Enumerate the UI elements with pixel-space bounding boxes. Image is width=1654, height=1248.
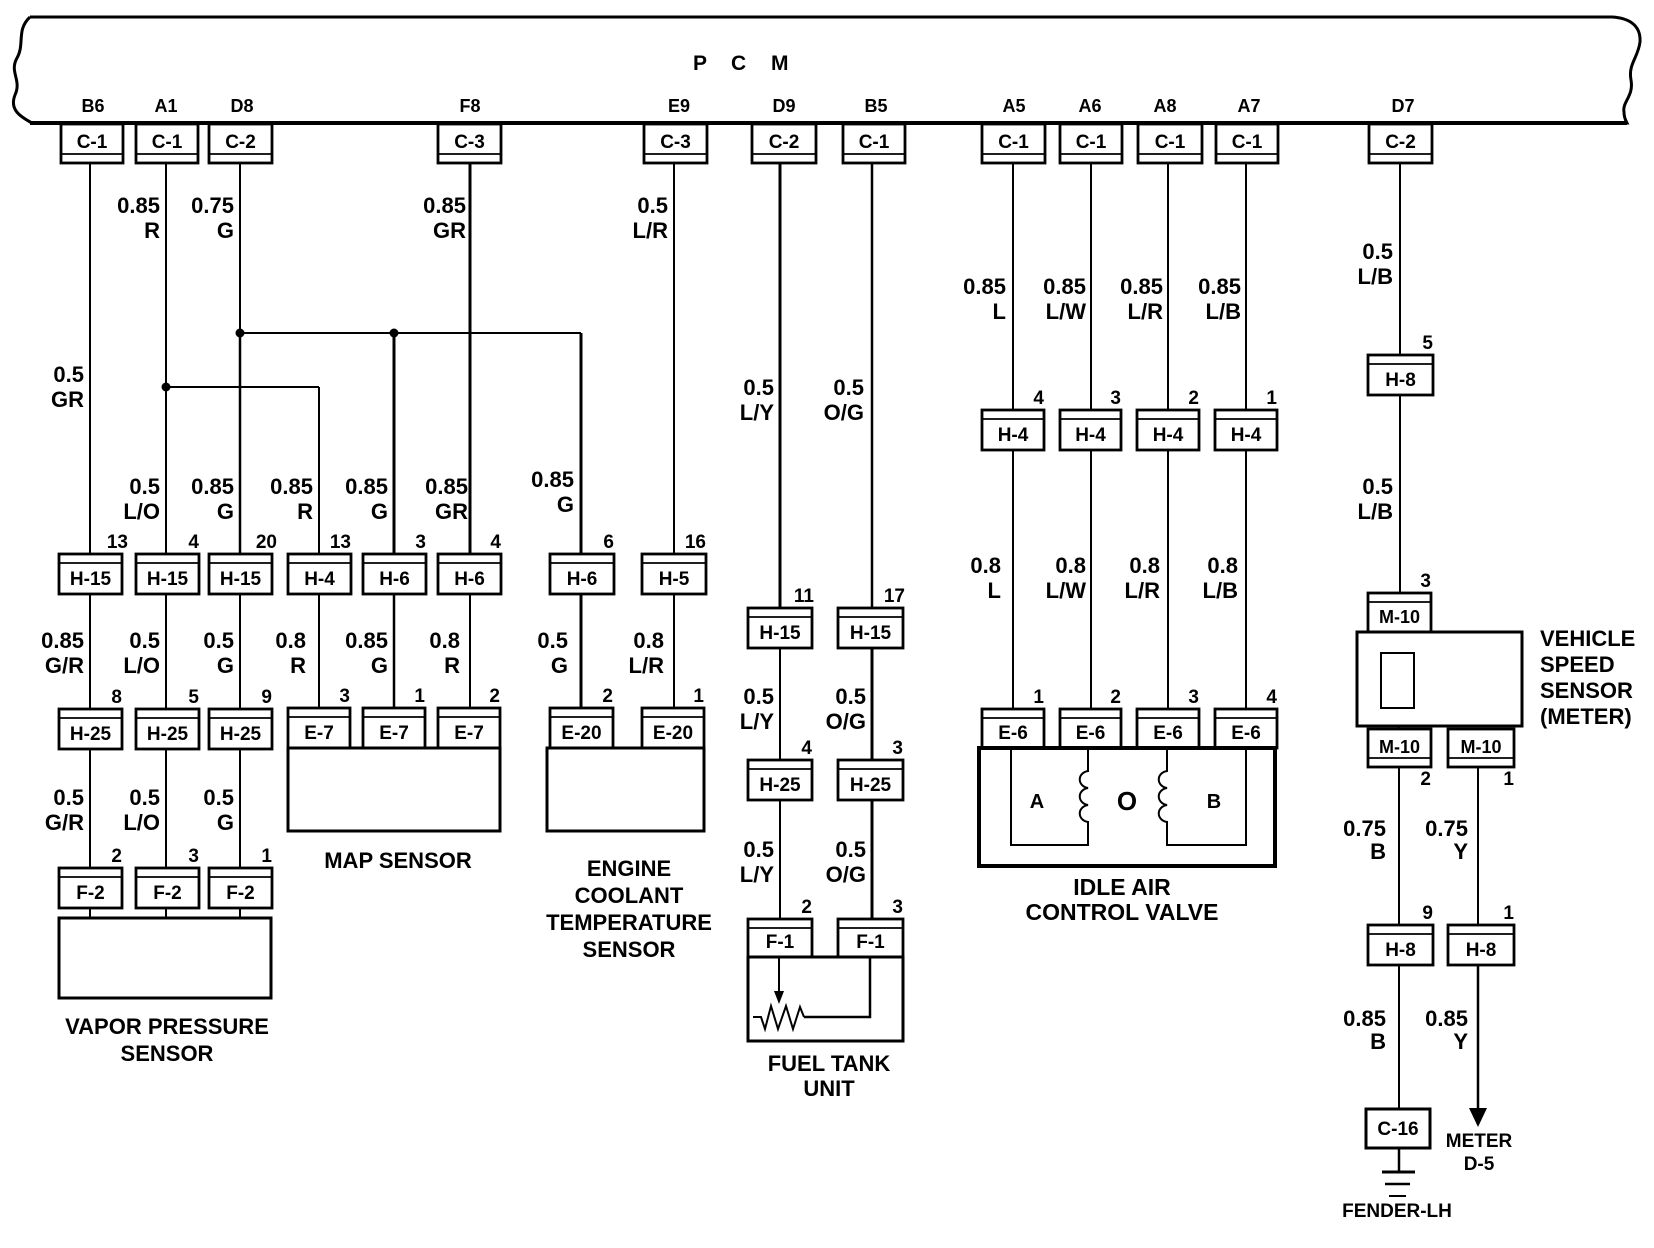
label 0.75 G (D8) xyxy=(191,193,234,243)
connector F-2 pin 2 xyxy=(59,846,122,908)
wire H-4/3 to E-6/2 xyxy=(1090,448,1092,711)
connector E-7 pin 3 xyxy=(288,686,350,748)
svg-text:17: 17 xyxy=(884,586,905,607)
label 0.5 G/R (F-2/2) xyxy=(45,785,84,835)
svg-text:L/R: L/R xyxy=(629,653,665,678)
wire A6 to H-4/3 xyxy=(1090,163,1092,412)
svg-text:11: 11 xyxy=(794,586,815,607)
svg-text:0.85: 0.85 xyxy=(423,193,466,218)
svg-text:0.5: 0.5 xyxy=(129,474,160,499)
IACV winding A wire xyxy=(1011,748,1084,845)
svg-text:4: 4 xyxy=(490,532,501,553)
svg-text:A6: A6 xyxy=(1078,96,1101,116)
svg-text:H-15: H-15 xyxy=(759,623,801,644)
svg-text:0.85: 0.85 xyxy=(345,474,388,499)
svg-text:L/W: L/W xyxy=(1046,299,1087,324)
svg-text:SENSOR: SENSOR xyxy=(583,937,676,962)
label 0.85 G/R (B6) xyxy=(41,628,84,678)
svg-text:0.85: 0.85 xyxy=(345,628,388,653)
wire resistor to F-1 pin 3 xyxy=(804,957,870,1017)
wire H-6/3 to E-7/1 xyxy=(393,592,396,710)
svg-text:9: 9 xyxy=(261,687,272,708)
connector H-25 pin 5 xyxy=(136,687,199,749)
svg-text:F-1: F-1 xyxy=(766,932,795,953)
connector H-4 pin 1 xyxy=(1215,388,1277,450)
svg-text:TEMPERATURE: TEMPERATURE xyxy=(546,910,712,935)
svg-text:(METER): (METER) xyxy=(1540,704,1632,729)
label 0.85 GR (H-6/4) xyxy=(425,474,468,524)
svg-text:O: O xyxy=(1117,786,1137,816)
svg-text:FENDER-LH: FENDER-LH xyxy=(1342,1201,1452,1222)
svg-text:H-4: H-4 xyxy=(1153,425,1184,446)
svg-text:8: 8 xyxy=(111,687,122,708)
connector H-6 pin 6 xyxy=(550,532,614,594)
svg-text:0.8: 0.8 xyxy=(1207,553,1238,578)
connector C-1 (A6) xyxy=(1060,124,1122,163)
connector C-1 (B5) xyxy=(843,124,905,163)
connector H-4 pin 4 xyxy=(982,388,1044,450)
svg-text:L/O: L/O xyxy=(123,499,160,524)
svg-text:2: 2 xyxy=(801,897,812,918)
label 0.5 O/G (B5) xyxy=(824,375,864,425)
connector C-1 (A1) xyxy=(136,124,198,163)
svg-text:0.8: 0.8 xyxy=(429,628,460,653)
svg-text:G/R: G/R xyxy=(45,653,84,678)
svg-text:A5: A5 xyxy=(1002,96,1025,116)
label 0.8 R (H-4/13) xyxy=(275,628,306,678)
svg-text:A1: A1 xyxy=(154,96,177,116)
label 0.5 O/G (H-25/3) xyxy=(826,684,866,734)
svg-text:13: 13 xyxy=(330,532,351,553)
svg-text:5: 5 xyxy=(1422,333,1433,354)
svg-text:1: 1 xyxy=(1266,388,1277,409)
label 0.5 G (F-2/1) xyxy=(203,785,234,835)
label 0.8 L/B (E-6/4) xyxy=(1203,553,1238,603)
wire C-16 to ground xyxy=(1398,1146,1401,1172)
svg-text:C-1: C-1 xyxy=(859,132,890,153)
svg-text:0.75: 0.75 xyxy=(191,193,234,218)
svg-text:E-20: E-20 xyxy=(653,723,693,744)
connector H-4 pin 2 xyxy=(1137,388,1199,450)
svg-text:16: 16 xyxy=(685,532,706,553)
label 0.85 G (D8) xyxy=(191,474,234,524)
svg-text:H-25: H-25 xyxy=(220,724,262,745)
svg-text:M-10: M-10 xyxy=(1460,737,1501,757)
label 0.5 L/Y (F-1/2) xyxy=(740,837,775,887)
svg-text:3: 3 xyxy=(892,738,903,759)
label 0.5 L/O (F-2/3) xyxy=(123,785,160,835)
svg-text:A7: A7 xyxy=(1237,96,1260,116)
label 0.75 B (M-10/2) xyxy=(1343,816,1386,864)
svg-text:0.75: 0.75 xyxy=(1343,816,1386,841)
svg-text:1: 1 xyxy=(1503,769,1514,790)
label 0.5 L/B (M-10/3) xyxy=(1358,474,1393,524)
svg-text:H-4: H-4 xyxy=(998,425,1029,446)
svg-text:0.8: 0.8 xyxy=(970,553,1001,578)
svg-text:9: 9 xyxy=(1422,903,1433,924)
svg-text:0.85: 0.85 xyxy=(1120,274,1163,299)
svg-text:M-10: M-10 xyxy=(1379,737,1420,757)
svg-text:4: 4 xyxy=(188,532,199,553)
svg-text:FUEL TANK: FUEL TANK xyxy=(768,1051,891,1076)
connector E-20 pin 2 xyxy=(550,686,613,748)
fuel tank sender arrow xyxy=(774,957,784,1004)
svg-text:1: 1 xyxy=(414,686,425,707)
svg-text:C-1: C-1 xyxy=(1155,132,1186,153)
MAP sensor label xyxy=(324,848,472,873)
svg-text:H-4: H-4 xyxy=(1231,425,1262,446)
label 0.85 B (C-16) xyxy=(1343,1006,1386,1054)
svg-text:0.5: 0.5 xyxy=(53,362,84,387)
label 0.5 G (H-15/20) xyxy=(203,628,234,678)
PCM module band xyxy=(13,17,1640,123)
connector M-10 pin 1 xyxy=(1448,729,1514,790)
svg-text:H-15: H-15 xyxy=(850,623,892,644)
svg-text:H-8: H-8 xyxy=(1385,370,1416,391)
svg-text:O/G: O/G xyxy=(824,400,864,425)
svg-text:L: L xyxy=(988,578,1001,603)
svg-text:H-15: H-15 xyxy=(220,569,262,590)
svg-text:E-6: E-6 xyxy=(1231,723,1261,744)
svg-text:F-1: F-1 xyxy=(856,932,885,953)
svg-text:R: R xyxy=(290,653,306,678)
svg-text:0.8: 0.8 xyxy=(1055,553,1086,578)
label 0.5 G (E-20/2) xyxy=(537,628,568,678)
wire junction to H-15/4 xyxy=(165,387,167,556)
svg-text:2: 2 xyxy=(489,686,500,707)
svg-text:C-1: C-1 xyxy=(77,132,108,153)
fuel tank unit body xyxy=(748,957,903,1041)
wire H-8/5 to M-10/3 xyxy=(1399,393,1401,595)
label 0.85 L/W (A6) xyxy=(1043,274,1086,324)
svg-text:H-25: H-25 xyxy=(759,775,801,796)
svg-text:0.85: 0.85 xyxy=(425,474,468,499)
connector H-5 pin 16 xyxy=(642,532,706,594)
svg-text:4: 4 xyxy=(1266,687,1277,708)
svg-text:E-7: E-7 xyxy=(454,723,484,744)
wire B6 to H-15 xyxy=(89,163,91,556)
connector C-1 (B6) xyxy=(61,124,123,163)
svg-text:0.5: 0.5 xyxy=(743,375,774,400)
label 0.8 L/R (E-6/3) xyxy=(1125,553,1161,603)
svg-text:B: B xyxy=(1207,791,1221,813)
connector C-1 (A7) xyxy=(1216,124,1278,163)
svg-text:P: P xyxy=(693,52,707,75)
svg-text:0.5: 0.5 xyxy=(129,628,160,653)
label 0.85 L (A5) xyxy=(963,274,1006,324)
wire H-4/2 to E-6/3 xyxy=(1167,448,1169,711)
svg-text:C-2: C-2 xyxy=(225,132,256,153)
connector C-3 (E9) xyxy=(644,124,707,163)
svg-text:H-8: H-8 xyxy=(1466,940,1497,961)
engine coolant temperature sensor body xyxy=(547,748,704,831)
vehicle speed sensor element xyxy=(1381,653,1414,708)
wire F8 to H-6/4 xyxy=(469,163,472,556)
ground FENDER-LH xyxy=(1382,1172,1415,1196)
vapor pressure sensor label xyxy=(65,1014,269,1066)
connector F-1 pin 2 xyxy=(748,897,812,957)
svg-text:3: 3 xyxy=(188,846,199,867)
svg-text:H-6: H-6 xyxy=(454,569,485,590)
wire M-10/3 into VSS xyxy=(1398,630,1400,655)
wire F-2/1 stub xyxy=(239,906,241,918)
svg-text:E-6: E-6 xyxy=(998,723,1028,744)
junction node A1 branch xyxy=(162,383,171,392)
svg-text:M: M xyxy=(771,52,789,75)
svg-text:C-1: C-1 xyxy=(1232,132,1263,153)
label 0.5 L/B (D7) xyxy=(1358,239,1393,289)
connector H-6 pin 4 xyxy=(438,532,501,594)
wire E9 to H-5/16 xyxy=(673,163,675,556)
connector H-8 pin 9 xyxy=(1368,903,1433,965)
connector C-3 (F8) xyxy=(438,124,501,163)
svg-text:H-15: H-15 xyxy=(70,569,112,590)
connector H-25 pin 3 xyxy=(838,738,903,800)
connector F-2 pin 3 xyxy=(136,846,199,908)
svg-text:0.5: 0.5 xyxy=(537,628,568,653)
svg-text:R: R xyxy=(144,218,160,243)
wire H-6/4 to E-7/2 xyxy=(469,592,471,710)
svg-text:H-6: H-6 xyxy=(567,569,598,590)
connector F-2 pin 1 xyxy=(209,846,272,908)
connector F-1 pin 3 xyxy=(838,897,903,957)
connector E-7 pin 1 xyxy=(363,686,425,748)
svg-text:A8: A8 xyxy=(1153,96,1176,116)
meter label xyxy=(1446,1131,1513,1175)
wire junction to H-15/20 xyxy=(239,333,242,556)
svg-text:H-6: H-6 xyxy=(379,569,410,590)
wire H-25/9 to F-2/1 xyxy=(239,747,241,870)
wire H-4/4 to E-6/1 xyxy=(1012,448,1014,711)
svg-text:E-7: E-7 xyxy=(379,723,409,744)
svg-text:MAP SENSOR: MAP SENSOR xyxy=(324,848,472,873)
svg-text:2: 2 xyxy=(1188,388,1199,409)
connector H-25 pin 4 xyxy=(748,738,812,800)
svg-text:C: C xyxy=(731,52,746,75)
label 0.85 G (E-7/1) xyxy=(345,628,388,678)
svg-text:H-5: H-5 xyxy=(659,569,690,590)
svg-text:0.5: 0.5 xyxy=(53,785,84,810)
svg-text:0.8: 0.8 xyxy=(275,628,306,653)
label 0.5 L/R (E9) xyxy=(633,193,669,243)
svg-text:H-8: H-8 xyxy=(1385,940,1416,961)
svg-text:0.5: 0.5 xyxy=(129,785,160,810)
label 0.85 L/B (A7) xyxy=(1198,274,1241,324)
svg-text:0.5: 0.5 xyxy=(835,684,866,709)
idle air control valve label xyxy=(1026,874,1219,925)
wire A1 to junction xyxy=(165,163,167,387)
svg-text:3: 3 xyxy=(1110,388,1121,409)
wire A5 to H-4/4 xyxy=(1012,163,1014,412)
label 0.5 L/Y (D9) xyxy=(740,375,775,425)
label 0.8 R (E-7/2) xyxy=(429,628,460,678)
svg-text:H-25: H-25 xyxy=(850,775,892,796)
svg-text:0.5: 0.5 xyxy=(743,684,774,709)
connector H-15 pin 20 xyxy=(209,532,277,594)
svg-text:L/B: L/B xyxy=(1203,578,1238,603)
svg-text:E-7: E-7 xyxy=(304,723,334,744)
svg-text:2: 2 xyxy=(111,846,122,867)
vehicle speed sensor label xyxy=(1540,626,1635,729)
label 0.5 L/O (A1) xyxy=(123,474,160,524)
wire branch down to H-6/3 xyxy=(393,333,396,556)
svg-text:0.5: 0.5 xyxy=(637,193,668,218)
wire H-25/8 to F-2 xyxy=(89,747,91,870)
label 0.85 G (H-6/3) xyxy=(345,474,388,524)
IACV winding B wire xyxy=(1171,748,1246,845)
vehicle speed sensor body xyxy=(1357,632,1522,726)
svg-text:G: G xyxy=(217,218,234,243)
svg-text:0.85: 0.85 xyxy=(270,474,313,499)
svg-text:20: 20 xyxy=(256,532,277,553)
connector H-8 pin 5 xyxy=(1368,333,1433,395)
svg-text:2: 2 xyxy=(1420,769,1431,790)
connector H-8 pin 1 xyxy=(1448,903,1514,965)
svg-text:R: R xyxy=(444,653,460,678)
label 0.5 GR (B6) xyxy=(51,362,84,412)
wire M-10/2 to H-8/9 xyxy=(1398,765,1400,927)
svg-text:H-4: H-4 xyxy=(304,569,335,590)
connector M-10 pin 3 xyxy=(1368,571,1431,632)
svg-text:G: G xyxy=(371,499,388,524)
svg-text:VAPOR PRESSURE: VAPOR PRESSURE xyxy=(65,1014,269,1039)
svg-text:L/O: L/O xyxy=(123,653,160,678)
svg-text:GR: GR xyxy=(51,387,84,412)
wire H-4/1 to E-6/4 xyxy=(1245,448,1247,711)
connector H-4 pin 13 xyxy=(288,532,351,594)
wire F-2/2 stub xyxy=(89,906,91,918)
label 0.85 R (branch) xyxy=(270,474,313,524)
svg-text:1: 1 xyxy=(693,686,704,707)
svg-text:SPEED: SPEED xyxy=(1540,652,1615,677)
svg-text:E9: E9 xyxy=(668,96,690,116)
svg-text:H-4: H-4 xyxy=(1075,425,1106,446)
svg-text:2: 2 xyxy=(1110,687,1121,708)
svg-text:0.85: 0.85 xyxy=(1043,274,1086,299)
svg-text:2: 2 xyxy=(602,686,613,707)
svg-text:G/R: G/R xyxy=(45,810,84,835)
svg-text:1: 1 xyxy=(1503,903,1514,924)
wire H-8/9 to C-16 xyxy=(1398,963,1400,1111)
svg-text:L/B: L/B xyxy=(1206,299,1241,324)
svg-text:B: B xyxy=(1370,839,1386,864)
arrow to meter xyxy=(1469,1108,1487,1127)
svg-text:0.85: 0.85 xyxy=(1198,274,1241,299)
svg-text:O/G: O/G xyxy=(826,862,866,887)
svg-text:UNIT: UNIT xyxy=(803,1076,855,1101)
svg-text:0.85: 0.85 xyxy=(1425,1006,1468,1031)
connector C-16 xyxy=(1366,1109,1430,1148)
vapor pressure sensor body xyxy=(59,918,271,998)
svg-text:VEHICLE: VEHICLE xyxy=(1540,626,1635,651)
svg-text:0.85: 0.85 xyxy=(191,474,234,499)
wire H-15/8 to H-25 xyxy=(89,592,91,711)
junction node D8 branch xyxy=(236,329,245,338)
ground label FENDER-LH xyxy=(1342,1201,1452,1222)
connector H-15 pin 13 xyxy=(59,532,128,594)
svg-text:0.5: 0.5 xyxy=(833,375,864,400)
svg-text:B5: B5 xyxy=(864,96,887,116)
svg-text:3: 3 xyxy=(1188,687,1199,708)
svg-text:G: G xyxy=(557,492,574,517)
connector E-20 pin 1 xyxy=(642,686,704,748)
svg-text:C-3: C-3 xyxy=(454,132,485,153)
connector E-7 pin 2 xyxy=(438,686,500,748)
svg-text:13: 13 xyxy=(107,532,128,553)
svg-text:3: 3 xyxy=(339,686,350,707)
svg-text:L/Y: L/Y xyxy=(740,709,775,734)
svg-text:L/Y: L/Y xyxy=(740,400,775,425)
svg-text:D7: D7 xyxy=(1391,96,1414,116)
wire H-8/1 to meter arrow xyxy=(1477,963,1480,1110)
wire H-5/16 to E-20/1 xyxy=(673,592,675,710)
svg-text:0.5: 0.5 xyxy=(1362,239,1393,264)
svg-text:3: 3 xyxy=(892,897,903,918)
svg-text:IDLE AIR: IDLE AIR xyxy=(1073,874,1171,900)
svg-text:D9: D9 xyxy=(772,96,795,116)
label 0.5 L/O (H-15/4) xyxy=(123,628,160,678)
svg-text:E-20: E-20 xyxy=(561,723,601,744)
connector M-10 pin 2 xyxy=(1368,729,1431,790)
svg-text:D-5: D-5 xyxy=(1464,1154,1495,1175)
svg-text:O/G: O/G xyxy=(826,709,866,734)
engine coolant temperature sensor label xyxy=(546,856,712,962)
svg-text:GR: GR xyxy=(433,218,466,243)
label 0.5 L/Y (H-25/4) xyxy=(740,684,775,734)
wire D9 to H-15/11 xyxy=(779,163,782,610)
svg-text:L/O: L/O xyxy=(123,810,160,835)
svg-text:GR: GR xyxy=(435,499,468,524)
svg-text:L/R: L/R xyxy=(1125,578,1161,603)
label 0.8 L (E-6/1) xyxy=(970,553,1001,603)
wire H-25/3 to F-1/3 xyxy=(871,798,874,921)
svg-text:E-6: E-6 xyxy=(1153,723,1183,744)
svg-text:0.5: 0.5 xyxy=(835,837,866,862)
wire H-15/4 to H-25/5 xyxy=(165,592,167,711)
svg-text:CONTROL VALVE: CONTROL VALVE xyxy=(1026,899,1219,925)
svg-text:C-1: C-1 xyxy=(998,132,1029,153)
svg-text:G: G xyxy=(551,653,568,678)
fuel tank sender resistor xyxy=(753,1006,804,1029)
svg-text:M-10: M-10 xyxy=(1379,607,1420,627)
svg-text:F8: F8 xyxy=(459,96,480,116)
svg-text:COOLANT: COOLANT xyxy=(575,883,684,908)
svg-text:0.5: 0.5 xyxy=(1362,474,1393,499)
svg-text:H-25: H-25 xyxy=(70,724,112,745)
svg-text:SENSOR: SENSOR xyxy=(1540,678,1633,703)
svg-text:G: G xyxy=(217,653,234,678)
PCM label xyxy=(693,52,789,75)
svg-text:L/R: L/R xyxy=(1128,299,1164,324)
label 0.85 Y (meter) xyxy=(1425,1006,1468,1054)
svg-text:F-2: F-2 xyxy=(153,883,182,904)
svg-text:SENSOR: SENSOR xyxy=(121,1041,214,1066)
svg-text:G: G xyxy=(217,499,234,524)
connector H-4 pin 3 xyxy=(1060,388,1121,450)
svg-text:F-2: F-2 xyxy=(76,883,105,904)
junction node H-6/3 branch xyxy=(390,329,399,338)
connector H-15 pin 4 xyxy=(136,532,199,594)
svg-text:0.5: 0.5 xyxy=(203,785,234,810)
svg-text:0.8: 0.8 xyxy=(633,628,664,653)
svg-text:G: G xyxy=(217,810,234,835)
wire branch D8 horizontal xyxy=(240,332,581,334)
wire A7 to H-4/1 xyxy=(1245,163,1247,412)
connector H-6 pin 3 xyxy=(363,532,426,594)
wire A8 to H-4/2 xyxy=(1167,163,1169,412)
IACV coil A xyxy=(1080,748,1088,845)
label 0.85 L/R (A8) xyxy=(1120,274,1163,324)
